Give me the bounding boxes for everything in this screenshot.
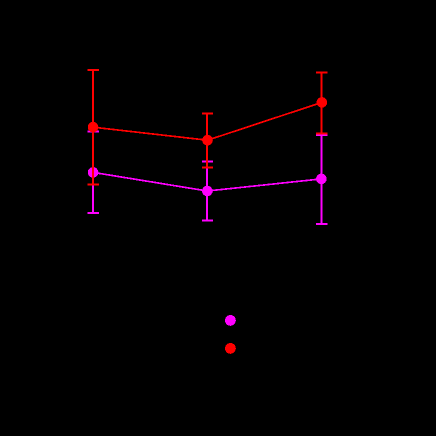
red series line bbox=[93, 102, 322, 140]
red error bar x1 bbox=[88, 70, 99, 185]
red error bar x2 bbox=[202, 114, 213, 168]
magenta point x2 bbox=[202, 186, 213, 197]
red point x3 bbox=[317, 97, 328, 108]
red point x1 bbox=[88, 122, 99, 133]
red error bar x3 bbox=[316, 72, 327, 133]
magenta series line bbox=[93, 172, 321, 191]
magenta error bar x3 bbox=[316, 135, 327, 224]
magenta point x1 bbox=[88, 167, 99, 178]
legend magenta dot bbox=[225, 315, 236, 326]
red point x2 bbox=[202, 135, 213, 146]
legend red dot bbox=[225, 343, 236, 354]
magenta error bar x2 bbox=[202, 162, 213, 221]
magenta point x3 bbox=[316, 174, 327, 185]
magenta error bar x1 bbox=[88, 132, 99, 213]
